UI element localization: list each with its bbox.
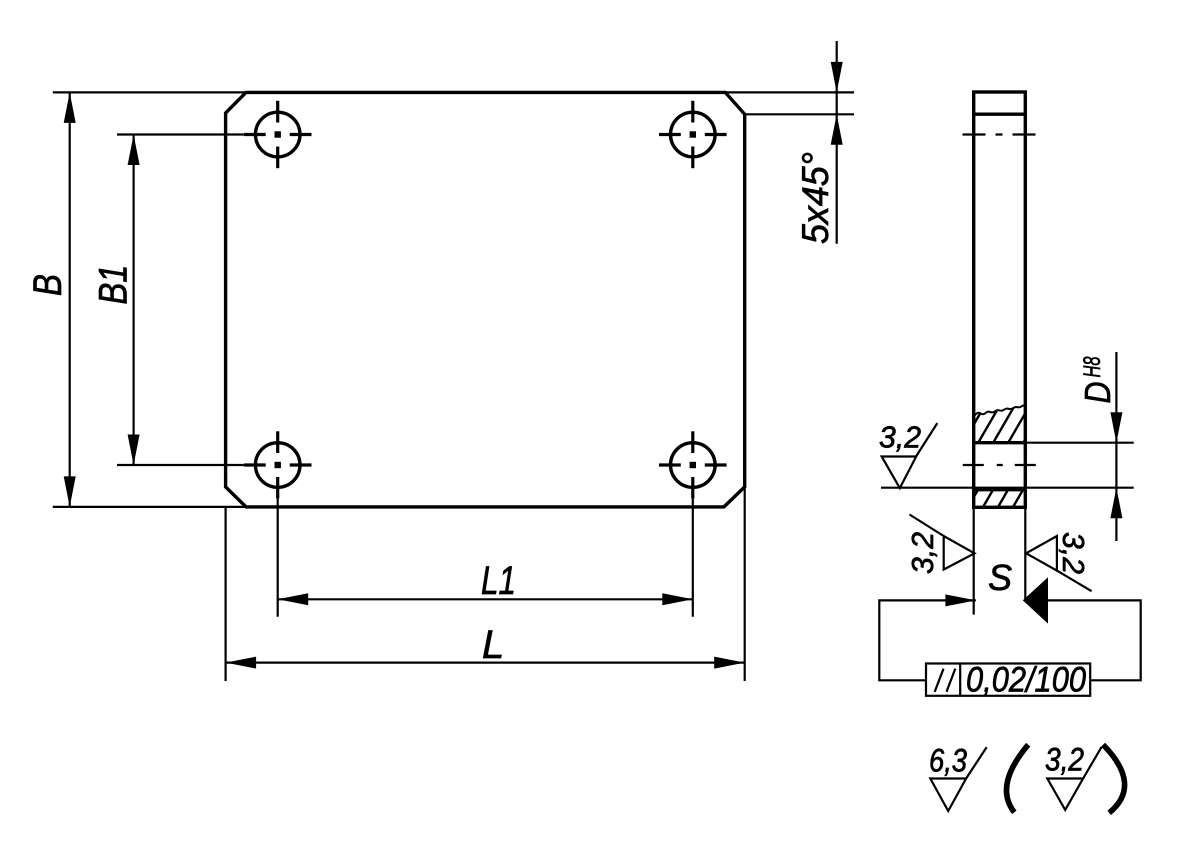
side view right edge extension (down)	[1024, 507, 1026, 600]
chamfer bottom extension line	[745, 113, 854, 115]
D top extension line	[1025, 442, 1133, 444]
svg-text:3,2: 3,2	[1045, 742, 1084, 778]
D bottom extension line (also roughness base)	[881, 487, 1134, 489]
chamfer arrow upper (points down)	[831, 62, 843, 93]
L1 left extension line (from bottom-left hole down)	[277, 499, 279, 617]
open paren	[1007, 745, 1029, 813]
side view break (wavy) line	[974, 405, 1026, 417]
L dimension line	[226, 661, 745, 663]
B arrow bottom	[64, 476, 76, 507]
L1 arrow right	[662, 593, 693, 605]
svg-text:H8: H8	[1079, 356, 1106, 377]
B dimension line	[69, 92, 71, 507]
datum solid triangle	[1023, 577, 1048, 623]
svg-text:3,2: 3,2	[905, 532, 940, 574]
roughness symbol left face	[910, 515, 975, 570]
D dim line middle segment	[1115, 443, 1117, 488]
L arrow left	[226, 657, 257, 669]
hole top line in side view	[974, 441, 1026, 444]
side view left edge extension (down)	[973, 507, 975, 614]
leader arrow (points right)	[945, 594, 976, 606]
side view upper centre line (dash-dot)	[963, 133, 1037, 135]
chamfer dim line lower tail	[836, 114, 838, 244]
parallel symbol	[935, 669, 944, 692]
L right extension line	[744, 488, 746, 681]
hole bottom line / lower hatch box top	[974, 488, 1026, 491]
leader right	[1048, 600, 1141, 680]
chamfer dim line middle segment	[836, 92, 838, 114]
chamfer top extension line	[725, 91, 854, 93]
plate outline with corner chamfers	[226, 92, 745, 507]
hole top-left center mark	[244, 101, 312, 168]
svg-text:L1: L1	[481, 559, 516, 603]
lower hatch	[967, 487, 1040, 509]
hole bottom-left circle	[255, 443, 300, 488]
hole bottom-right circle	[671, 443, 716, 488]
hole top-left circle	[255, 112, 300, 157]
side view chamfer line	[974, 112, 1026, 115]
D dim line lower tail	[1115, 488, 1117, 541]
hole bottom-left center mark	[244, 431, 312, 498]
svg-text:3,2: 3,2	[1056, 532, 1091, 574]
side view lower centre line (dash-dot)	[963, 464, 1037, 466]
svg-text:S: S	[988, 557, 1012, 598]
tolerance frame	[926, 664, 1090, 696]
side view outline	[974, 92, 1026, 507]
B1 dimension line	[133, 135, 135, 466]
B top extension line	[53, 91, 246, 93]
svg-text:3,2: 3,2	[879, 420, 921, 455]
chamfer arrow lower (points up)	[831, 114, 843, 145]
hole top-right center mark	[659, 101, 727, 168]
svg-text:L: L	[482, 623, 504, 667]
B1 arrow bottom	[128, 435, 140, 466]
L left extension line	[225, 507, 227, 681]
svg-text:B1: B1	[92, 265, 136, 305]
svg-text:6,3: 6,3	[929, 742, 967, 778]
L arrow right	[714, 657, 745, 669]
upper hatch	[961, 408, 1043, 446]
D dim line upper tail	[1115, 352, 1117, 443]
leader left	[879, 600, 976, 680]
L1 dimension line	[278, 598, 693, 600]
roughness symbol 6,3	[930, 747, 986, 811]
hole bottom-right center mark	[659, 431, 727, 498]
svg-text:5x45°: 5x45°	[795, 152, 836, 244]
B1 top extension line	[117, 133, 244, 135]
svg-text:0,02/100: 0,02/100	[966, 661, 1086, 700]
svg-text:D: D	[1077, 382, 1118, 404]
D arrow upper (points down)	[1110, 412, 1122, 443]
close paren	[1103, 745, 1125, 813]
L1 arrow left	[278, 593, 309, 605]
B bottom extension line	[53, 506, 246, 508]
B arrow top	[64, 92, 76, 123]
D arrow lower (points up)	[1110, 488, 1122, 519]
svg-text:B: B	[26, 274, 70, 296]
B1 arrow top	[128, 135, 140, 166]
B1 bottom extension line	[117, 464, 244, 466]
roughness symbol 3,2 in parens	[1047, 747, 1101, 810]
roughness symbol 3,2 at hole	[882, 423, 938, 488]
chamfer dim line upper tail	[836, 41, 838, 92]
hole top-right circle	[671, 112, 716, 157]
L1 right extension line (from bottom-right hole down)	[692, 499, 694, 617]
roughness symbol right face	[1026, 536, 1092, 591]
